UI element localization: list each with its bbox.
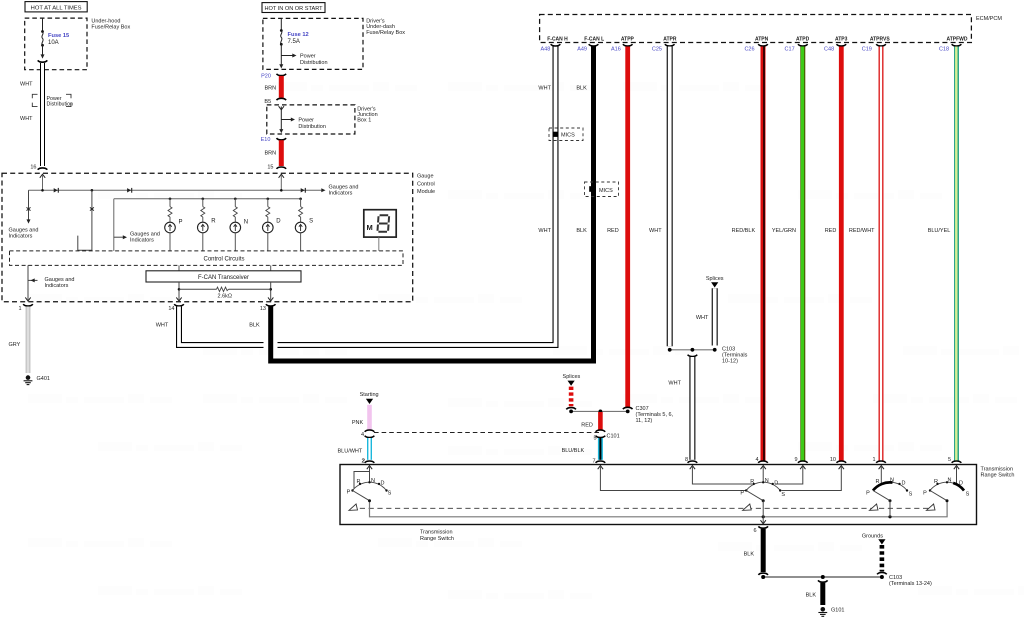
wire GRY pin1 to G401 (9, 304, 33, 373)
svg-text:B5: B5 (264, 99, 271, 105)
svg-text:RED: RED (825, 228, 837, 234)
MICS box 2 (585, 182, 619, 197)
svg-text:D: D (774, 480, 778, 486)
svg-text:1: 1 (872, 457, 875, 463)
svg-text:RED: RED (581, 423, 593, 429)
svg-text:14: 14 (168, 306, 174, 312)
node HOT AT ALL TIMES (25, 2, 87, 12)
svg-text:10-12): 10-12) (722, 359, 738, 365)
wire BLK pin13 to F-CAN L (249, 46, 593, 361)
svg-text:N: N (890, 477, 894, 483)
svg-text:N: N (371, 478, 375, 484)
pin 16 entry arrow (40, 174, 45, 190)
svg-text:ATP3: ATP3 (835, 37, 848, 43)
svg-text:Module: Module (417, 189, 435, 195)
svg-text:Control: Control (417, 181, 435, 187)
wire WHT pin14 to F-CAN H (156, 46, 556, 345)
svg-text:Indicators: Indicators (329, 191, 353, 197)
svg-text:ATPP: ATPP (621, 37, 635, 43)
TRS top connector caps (758, 461, 961, 463)
pin ATPD / C17 (785, 37, 810, 53)
svg-text:S: S (388, 490, 392, 496)
svg-text:Fuse/Relay Box: Fuse/Relay Box (91, 25, 130, 31)
svg-text:13: 13 (260, 306, 266, 312)
wire BLU/WHT C101 to TRS pin 2 (338, 436, 375, 465)
svg-text:ATPFWD: ATPFWD (946, 37, 967, 43)
splice RED branch (563, 374, 581, 409)
diode symbol 2 (127, 188, 132, 193)
svg-text:WHT: WHT (156, 323, 169, 329)
svg-text:R: R (750, 479, 754, 485)
svg-text:1: 1 (18, 306, 21, 312)
svg-text:R: R (357, 479, 361, 485)
svg-text:16: 16 (30, 164, 36, 170)
svg-text:P: P (347, 489, 351, 495)
svg-text:A48: A48 (541, 47, 551, 53)
svg-text:4: 4 (361, 432, 364, 438)
pin ATPN / C26 (744, 37, 768, 53)
svg-text:HOT AT ALL TIMES: HOT AT ALL TIMES (31, 5, 82, 11)
svg-text:Range Switch: Range Switch (420, 536, 454, 542)
wire BLU/BLK C101 to TRS pin 7 (562, 436, 606, 465)
fuse F15 10A (41, 18, 70, 59)
wire YEL/GRN ATPD (772, 47, 803, 461)
gauge control module box (2, 173, 435, 301)
svg-text:Fuse 12: Fuse 12 (288, 32, 309, 38)
svg-text:N: N (765, 478, 769, 484)
svg-text:ATPR: ATPR (663, 37, 677, 43)
svg-text:Fuse/Relay Box: Fuse/Relay Box (366, 30, 405, 36)
wire WHT from fuse 15 to pin 16 (20, 60, 47, 169)
svg-text:D: D (381, 480, 385, 486)
ground G401 (24, 375, 50, 384)
ground G101 (818, 607, 844, 616)
svg-text:7: 7 (592, 458, 595, 464)
svg-text:C19: C19 (862, 47, 872, 53)
svg-text:S: S (966, 491, 970, 497)
control circuits block (10, 251, 404, 266)
wire BLK to G101 (806, 580, 828, 605)
svg-text:D: D (959, 480, 963, 486)
svg-text:GRY: GRY (9, 342, 21, 348)
wire pin1 internal (25, 265, 74, 301)
svg-text:(Terminals 13-24): (Terminals 13-24) (889, 581, 932, 587)
node HOT IN ON OR START (262, 3, 325, 13)
svg-text:Transmission: Transmission (981, 466, 1014, 472)
pin 15 entry arrow (279, 174, 284, 190)
svg-text:BLK: BLK (576, 228, 587, 234)
svg-text:BLK: BLK (249, 323, 260, 329)
power distribution tap (left) (32, 94, 73, 107)
svg-text:5: 5 (948, 457, 951, 463)
power distribution branch arrow (under-dash) (281, 54, 327, 67)
svg-text:WHT: WHT (696, 315, 709, 321)
svg-text:S: S (309, 219, 313, 225)
svg-text:ATPRVS: ATPRVS (870, 37, 890, 43)
svg-text:9: 9 (794, 457, 797, 463)
svg-text:G401: G401 (37, 376, 50, 382)
svg-text:Starting: Starting (360, 392, 379, 398)
switch gang 2 (600, 467, 841, 524)
svg-text:BRN: BRN (265, 86, 277, 92)
svg-text:C25: C25 (652, 47, 662, 53)
pin entry arrows TRS (367, 466, 959, 470)
diode symbol 1 (54, 188, 59, 193)
diode symbol 3 (301, 188, 306, 193)
pin ATP3 / C48 (824, 37, 848, 53)
driver's under-dash fuse/relay box (263, 18, 405, 69)
svg-text:WHT: WHT (668, 381, 681, 387)
connector C103 (terminals 10-12) (668, 347, 748, 365)
M/S mode display U1 (364, 210, 396, 251)
ECM/PCM box (540, 15, 1003, 43)
wiper common bus to pin 6 (370, 500, 948, 518)
MICS box 1 (549, 128, 583, 141)
svg-text:7.5A: 7.5A (288, 39, 300, 45)
F-CAN transceiver block (146, 265, 301, 282)
svg-text:Distribution: Distribution (47, 102, 74, 108)
node gauges and indicators (mid) (114, 231, 160, 243)
lamp D (263, 197, 282, 251)
lamp R (198, 197, 217, 251)
lamp N (230, 197, 248, 251)
svg-text:Indicators: Indicators (130, 237, 154, 243)
svg-text:Power: Power (298, 118, 314, 124)
wire RED/WHT ATPRVS (849, 47, 881, 461)
resistor 2.6k termination (176, 282, 273, 301)
svg-text:11, 12): 11, 12) (636, 418, 653, 424)
wire RED ATP3 (825, 47, 842, 461)
svg-text:P: P (179, 219, 183, 225)
svg-text:Control Circuits: Control Circuits (203, 257, 244, 263)
wire BLU/YEL ATPFWD (928, 47, 957, 461)
svg-text:2: 2 (361, 458, 364, 464)
svg-text:MICS: MICS (561, 133, 575, 139)
svg-text:F-CAN H: F-CAN H (547, 37, 568, 43)
svg-text:Power: Power (300, 54, 316, 60)
svg-text:BLK: BLK (806, 592, 817, 598)
lamp feed rail (114, 199, 301, 251)
switch gang 4 (forward) (923, 467, 970, 511)
lamp S (295, 197, 313, 251)
transmission range switch box (340, 465, 1014, 542)
svg-text:6: 6 (753, 528, 756, 534)
svg-text:ECM/PCM: ECM/PCM (976, 16, 1002, 22)
svg-text:WHT: WHT (20, 82, 33, 88)
svg-text:8: 8 (685, 457, 688, 463)
svg-text:Range Switch: Range Switch (981, 473, 1015, 479)
switch gang 3 (reverse) (866, 467, 913, 517)
svg-text:P: P (866, 490, 870, 496)
svg-text:Transmission: Transmission (420, 530, 453, 536)
svg-text:PNK: PNK (352, 420, 364, 426)
wire BRN E10-15 (red segment) (265, 138, 287, 169)
svg-text:ATPN: ATPN (755, 37, 769, 43)
svg-text:HOT IN ON OR START: HOT IN ON OR START (264, 6, 323, 12)
svg-text:WHT: WHT (538, 228, 551, 234)
driver's junction box 1 (267, 105, 378, 134)
svg-text:R: R (876, 479, 880, 485)
pin ATPP / A16 (611, 37, 635, 53)
svg-text:Splices: Splices (563, 374, 581, 380)
svg-text:G101: G101 (831, 608, 844, 614)
svg-text:15: 15 (267, 164, 273, 170)
svg-text:F-CAN L: F-CAN L (584, 37, 604, 43)
svg-text:Distribution: Distribution (300, 60, 328, 66)
svg-text:BLK: BLK (744, 552, 755, 558)
svg-text:BLK: BLK (576, 86, 587, 92)
svg-text:E10: E10 (261, 137, 271, 143)
svg-text:Indicators: Indicators (9, 233, 33, 239)
branch to control circuits (second drop) (78, 190, 94, 251)
svg-text:10: 10 (830, 457, 836, 463)
pin F-CAN H / A48 (541, 37, 569, 53)
svg-text:BLU/WHT: BLU/WHT (338, 448, 363, 454)
wire RED C307 to C101 (581, 412, 605, 432)
switch gang 1 (starter) (347, 467, 392, 511)
svg-text:F-CAN Transceiver: F-CAN Transceiver (198, 275, 249, 281)
svg-text:BLU/YEL: BLU/YEL (928, 228, 951, 234)
svg-text:RED: RED (607, 228, 619, 234)
svg-text:N: N (244, 219, 248, 225)
connector C307 (569, 406, 673, 424)
wire RED/BLK ATPN (732, 47, 764, 461)
svg-text:P: P (923, 490, 927, 496)
svg-text:C48: C48 (824, 47, 834, 53)
svg-text:2.6kΩ: 2.6kΩ (218, 294, 233, 300)
svg-text:S: S (781, 492, 785, 498)
pin F-CAN L / A49 (577, 37, 604, 53)
svg-text:A16: A16 (611, 47, 621, 53)
mechanical linkage dashed line (351, 507, 933, 509)
ground junction line (761, 575, 884, 579)
wire WHT C103 to TRS pin 8 (668, 355, 697, 463)
svg-text:MICS: MICS (599, 188, 613, 194)
svg-text:S: S (909, 491, 913, 497)
svg-text:WHT: WHT (20, 116, 33, 122)
pin ATPR / C25 (652, 37, 677, 53)
starting branch (352, 392, 379, 438)
svg-text:Grounds: Grounds (862, 533, 883, 539)
svg-text:C101: C101 (607, 433, 620, 439)
svg-text:Fuse 15: Fuse 15 (48, 33, 69, 39)
svg-text:BRN: BRN (265, 150, 277, 156)
svg-text:RED/WHT: RED/WHT (849, 228, 875, 234)
svg-text:Gauge: Gauge (417, 174, 434, 180)
svg-text:P20: P20 (261, 73, 271, 79)
connector C101 line (374, 433, 620, 442)
svg-text:C17: C17 (785, 47, 795, 53)
lamp P (165, 197, 183, 251)
svg-text:R: R (934, 479, 938, 485)
svg-text:YEL/GRN: YEL/GRN (772, 228, 796, 234)
wire RED ATPP (607, 47, 628, 408)
svg-text:WHT: WHT (649, 228, 662, 234)
svg-text:BLU/BLK: BLU/BLK (562, 448, 585, 454)
pin ATPRVS / C19 (862, 37, 891, 53)
fuse F12 7.5A (279, 18, 308, 68)
internal supply bus (29, 188, 326, 192)
pin ATPFWD / C18 (939, 37, 968, 53)
grounds branch (C103 terminals 13-24) (862, 533, 932, 587)
svg-text:4: 4 (755, 457, 758, 463)
svg-text:C18: C18 (939, 47, 949, 53)
svg-text:D: D (276, 219, 281, 225)
svg-text:C103: C103 (889, 575, 902, 581)
wire WHT ATPR (649, 47, 670, 347)
svg-text:N: N (948, 477, 952, 483)
svg-text:R: R (211, 219, 216, 225)
svg-text:WHT: WHT (538, 86, 551, 92)
under-hood fuse/relay box (25, 18, 131, 70)
wire BLK pin6 to ground junction (744, 526, 768, 574)
svg-text:P: P (740, 491, 744, 497)
svg-text:M: M (367, 223, 373, 232)
svg-text:C26: C26 (744, 47, 754, 53)
wire BRN P20-B5 (red segment) (265, 74, 287, 100)
svg-text:A49: A49 (577, 47, 587, 53)
splice WHT branch (696, 276, 724, 346)
svg-text:ATPD: ATPD (796, 37, 810, 43)
svg-text:Distribution: Distribution (298, 124, 326, 130)
node gauges and indicators (bus right) (329, 185, 359, 197)
branch to gauges and indicators (left) (9, 190, 39, 239)
svg-text:Indicators: Indicators (45, 283, 69, 289)
svg-text:10A: 10A (48, 40, 59, 46)
svg-text:RED/BLK: RED/BLK (732, 228, 756, 234)
svg-text:Box 1: Box 1 (357, 118, 371, 124)
svg-text:Splices: Splices (706, 276, 724, 282)
svg-text:D: D (902, 480, 906, 486)
